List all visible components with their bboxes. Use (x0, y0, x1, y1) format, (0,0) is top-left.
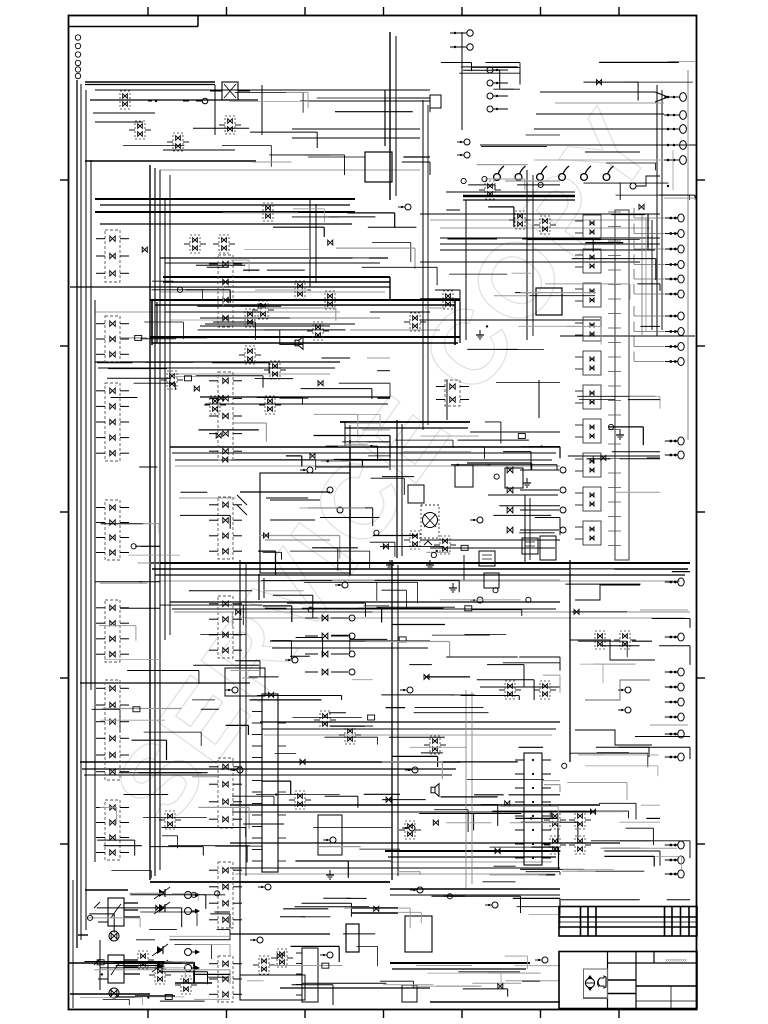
transistor Q22 (569, 811, 591, 829)
connector CN1 (665, 214, 684, 298)
transistor Q20 (614, 631, 636, 649)
wire cluster (568, 396, 660, 492)
wire vertical buses (73, 32, 688, 1008)
junction Y1 (534, 90, 688, 168)
transistor Q36 (149, 966, 171, 984)
connector J3 (96, 383, 129, 461)
connector eyelets column (75, 35, 80, 79)
transistor Q37 (175, 976, 197, 994)
wire cluster (448, 204, 661, 350)
terminal T2 (630, 150, 673, 190)
transistor Q8 (161, 371, 183, 389)
transistor Q14 (534, 216, 556, 234)
ground (523, 478, 531, 487)
transistor Q26 (339, 726, 361, 744)
connector CN10 (450, 30, 473, 50)
connector CN4 (665, 578, 684, 641)
connector J20 (515, 753, 551, 865)
ic U5 (540, 536, 556, 560)
connector J1 (96, 230, 129, 282)
speaker LS2 (431, 784, 439, 797)
transistor Q40 (271, 949, 293, 967)
connector J12 (209, 758, 242, 828)
transistor Q25 (314, 711, 336, 729)
wire cluster (95, 524, 160, 660)
ic U11 (225, 668, 265, 696)
connector J25 (436, 380, 469, 406)
ground (426, 560, 434, 569)
transistor Q21 (544, 811, 566, 829)
ic U30 (479, 551, 495, 566)
wire right-mid steps (570, 585, 688, 745)
switch SW1 (210, 82, 250, 100)
connector J2 (96, 316, 129, 362)
transistor Q7 (264, 361, 286, 379)
transistor Q9 (204, 396, 226, 414)
diode rows D1-D4 (305, 615, 355, 675)
title strip top-left (69, 16, 198, 27)
connector CN7 (665, 841, 684, 878)
transistor Q6 (239, 346, 261, 364)
wire cluster (129, 440, 561, 574)
border frame (69, 16, 697, 1010)
wire cluster (584, 62, 696, 200)
transistor Q31 (114, 91, 136, 109)
wire cluster (492, 753, 660, 869)
ic U3 (455, 465, 473, 487)
wire cluster (160, 582, 560, 700)
speaker LS1 (295, 337, 303, 350)
wire cluster (403, 383, 560, 470)
connector J9 (209, 372, 242, 460)
diodes D10 (152, 887, 200, 972)
transistor Q15 (404, 531, 426, 549)
coil row L1 (463, 166, 614, 200)
ic array U20 (575, 215, 601, 545)
wire cluster (441, 63, 520, 90)
wire cluster (397, 797, 560, 875)
transistor Q33 (167, 133, 189, 151)
wire cluster (249, 580, 560, 692)
transistor Q1 (184, 235, 206, 253)
ic U12 (408, 485, 424, 503)
ground (616, 430, 624, 439)
transistor Q43 (307, 322, 329, 340)
transistor Q3 (252, 301, 274, 319)
transistor Q34 (257, 203, 279, 221)
connector CN3 (665, 437, 684, 459)
ic U6 (318, 815, 342, 855)
ic U4 (505, 468, 523, 488)
amp block A1 (237, 473, 350, 573)
transistor Q13 (509, 211, 531, 229)
connector CN5 (665, 668, 684, 721)
wire cluster (269, 692, 560, 802)
ground (476, 330, 484, 339)
wire cluster (123, 92, 430, 175)
ic U10 (240, 975, 305, 1000)
ic array U21 (608, 210, 629, 560)
transistor Q17 (499, 681, 521, 699)
connector CN8 (664, 93, 686, 165)
transistor Q27 (424, 736, 446, 754)
transistor Q28 (289, 791, 311, 809)
ic U2 (536, 288, 562, 315)
transistor Q29 (159, 811, 181, 829)
connector J8 (209, 255, 242, 327)
ground (386, 560, 394, 569)
wire cluster (566, 569, 691, 683)
transistor Q35 (219, 116, 241, 134)
wire cluster (194, 379, 390, 470)
transistor Q16 (434, 536, 456, 554)
wire right fanout (634, 208, 664, 362)
logo emblem (585, 975, 606, 991)
wire cluster (80, 891, 230, 1005)
connector J14 (209, 956, 242, 1002)
transistor Q23 (544, 836, 566, 854)
ic U1 (365, 152, 392, 182)
wire cluster (247, 882, 560, 1005)
ic U8 (402, 985, 417, 1002)
wire cluster (120, 209, 460, 345)
transistor Q39 (253, 956, 275, 974)
transistor Q11 (437, 291, 459, 309)
wire bottom-left heavies (78, 890, 212, 996)
watermark SERVICE COPY (92, 87, 678, 844)
transistor Q24 (569, 836, 591, 854)
wire cluster (92, 661, 260, 777)
connector J4 (96, 500, 129, 560)
ground (449, 583, 457, 592)
transistor Q41 (239, 309, 261, 327)
ic U9 (346, 924, 359, 952)
ic U31 (522, 538, 538, 554)
wire cluster (94, 936, 230, 1005)
motor M1 (421, 505, 439, 545)
transistor Q2 (213, 235, 235, 253)
connector J6 (96, 680, 129, 780)
transistor Q12 (479, 181, 501, 199)
connector CN11 (487, 67, 508, 112)
ic U7 (405, 916, 432, 952)
wire horizontal buses (68, 82, 697, 1002)
connector CN6 (665, 730, 684, 761)
relay RL2 (94, 955, 140, 998)
ic U32 (484, 573, 499, 588)
ic U13 (430, 95, 441, 108)
title block (559, 907, 697, 1009)
wire cluster (97, 358, 390, 462)
connector J11 (209, 596, 242, 658)
connector J5 (96, 600, 129, 662)
transistor Q38 (132, 951, 154, 969)
connector J21 (296, 948, 318, 1002)
svg-text:XXXXXXXXXX: XXXXXXXXXX (665, 959, 687, 963)
connector J22 (252, 694, 286, 872)
transistor Q5 (319, 291, 341, 309)
transistor Q42 (404, 313, 426, 331)
transistor Q18 (534, 681, 556, 699)
wire cluster (461, 135, 560, 190)
terminals (225, 139, 631, 963)
ground (326, 870, 334, 879)
wire cluster (561, 737, 690, 901)
wire cluster (97, 781, 400, 878)
connector J10 (209, 497, 242, 559)
connector CN2 (665, 312, 684, 366)
transistor Q4 (289, 281, 311, 299)
connector J7 (96, 800, 129, 860)
transistor Q19 (589, 631, 611, 649)
connector J13 (209, 862, 242, 928)
transistor Q30 (399, 821, 421, 839)
diode rows D5-D8 (507, 467, 566, 533)
transistor Q10 (259, 396, 281, 414)
transistor Q32 (129, 121, 151, 139)
relay RL1 (94, 898, 140, 941)
